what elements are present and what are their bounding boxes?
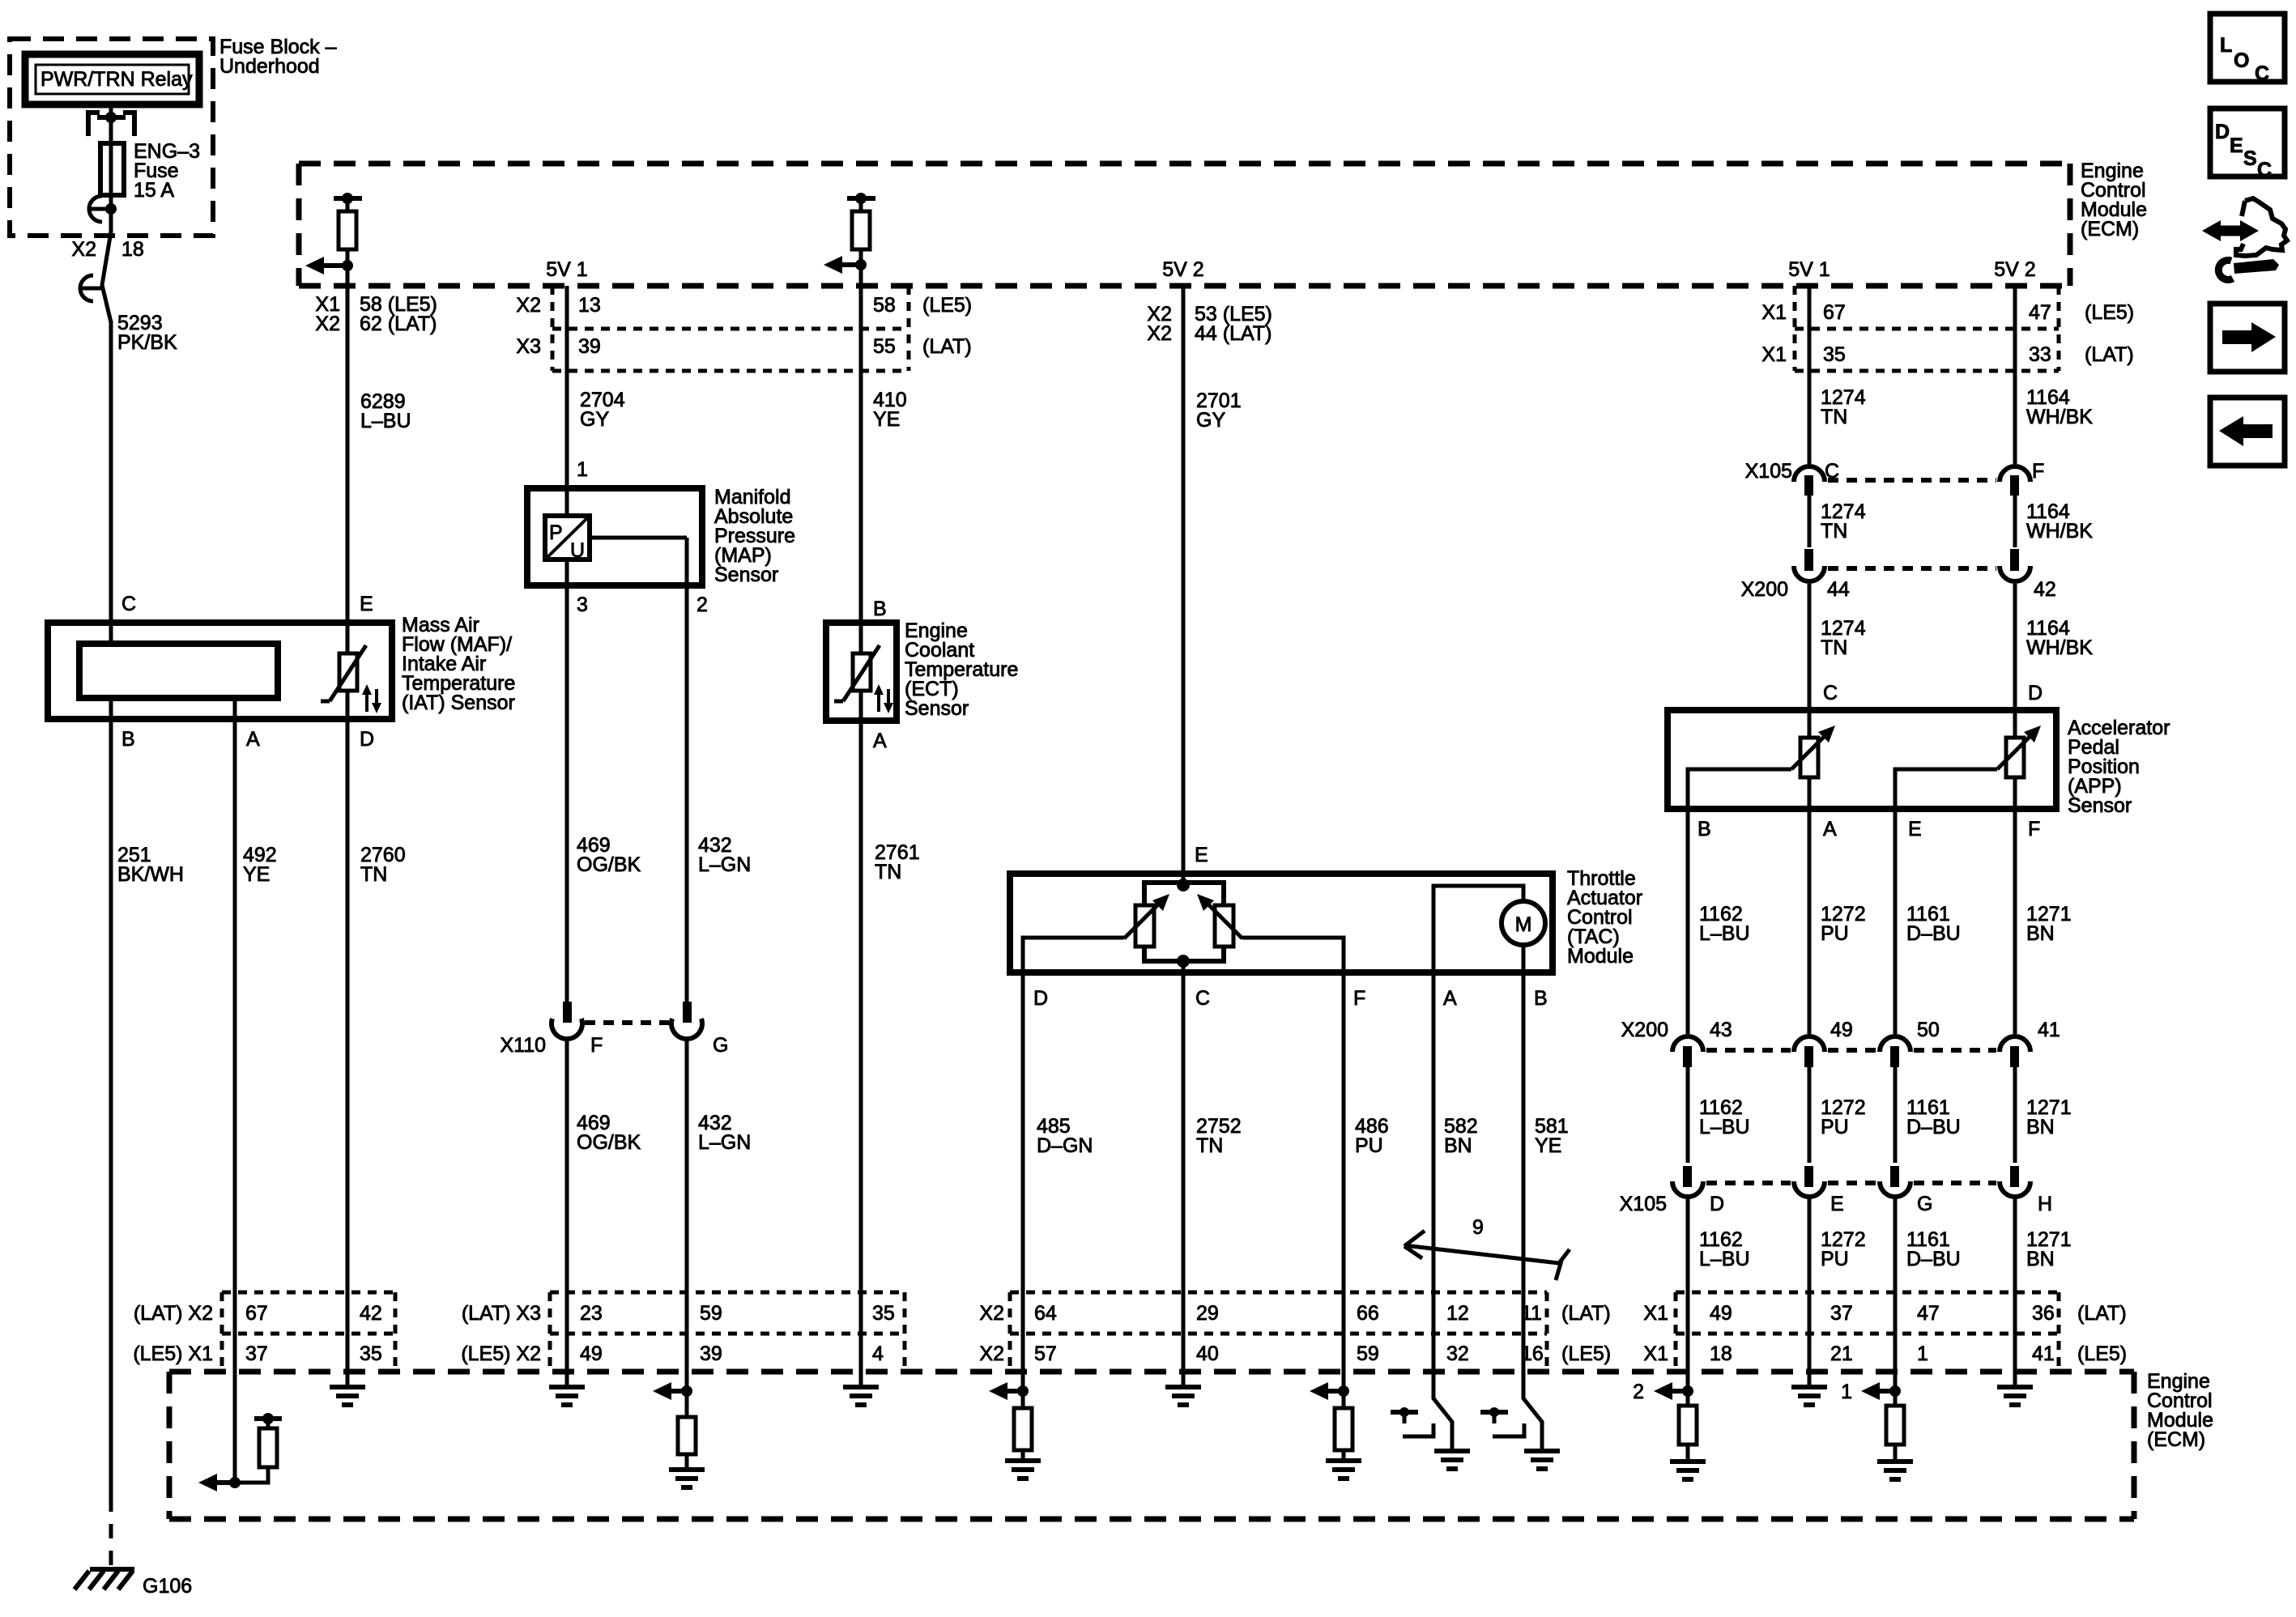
- dashed link X105 upper: [1828, 478, 1996, 483]
- svg-text:58: 58: [873, 294, 896, 317]
- svg-text:18: 18: [1710, 1343, 1732, 1365]
- pin labels (LAT) X3 23 59 35: [462, 1302, 895, 1325]
- wire 1274 TN segment 1: [1808, 286, 1812, 464]
- pin labels X1 67 47 (LE5) row: [1761, 301, 2134, 324]
- svg-text:F: F: [2032, 460, 2044, 483]
- wire 410 YE: [859, 286, 863, 623]
- label 1161 D-BU seg3: [1906, 1228, 1961, 1270]
- pin labels (LE5) X1 37 35: [133, 1343, 381, 1365]
- wire APP E internal: [1895, 769, 1997, 809]
- pin labels X1 49 37 47 36 (LAT): [1643, 1302, 2126, 1325]
- junction dot E TAC: [1177, 879, 1190, 891]
- label Engine Control Module (ECM) top: [2081, 160, 2147, 240]
- wire 1162 L-BU segment 3: [1686, 1198, 1690, 1292]
- label 1271 BN seg2: [2026, 1096, 2072, 1138]
- thermistor ECT symbol: [834, 623, 880, 721]
- svg-text:49: 49: [580, 1343, 603, 1365]
- svg-text:X1: X1: [1761, 301, 1787, 324]
- ground ECM internal APP A: [1791, 1387, 1827, 1405]
- MAF element inner box: [79, 644, 278, 698]
- svg-text:44 (LAT): 44 (LAT): [1195, 322, 1272, 345]
- label 2704 GY: [580, 389, 625, 431]
- label X110 F G: [500, 1034, 728, 1057]
- MAF/IAT sensor box: [48, 623, 392, 719]
- label 432 L-GN lower: [698, 1112, 751, 1154]
- APP sensor box: [1668, 710, 2056, 809]
- svg-text:X110: X110: [500, 1034, 546, 1057]
- motor M TAC: [1502, 901, 1545, 945]
- svg-text:1: 1: [577, 458, 588, 481]
- svg-text:BN: BN: [2026, 1248, 2055, 1270]
- wire 492 YE MAF A: [233, 698, 237, 1292]
- connector dashed box MAP-ECT pins: [552, 286, 909, 371]
- svg-text:TN: TN: [360, 863, 387, 886]
- label 1274 TN seg2: [1821, 500, 1866, 543]
- callout arrow 9: [1404, 1216, 1570, 1280]
- label 1162 L-BU seg2: [1699, 1096, 1750, 1138]
- wire 1271 BN segment 2: [2013, 1067, 2017, 1163]
- connector X200 pin 43: [1672, 1036, 1703, 1067]
- ground ECM internal APP E: [1877, 1462, 1913, 1479]
- wire TAC D into ECM: [1021, 1292, 1025, 1408]
- pin label A APP: [1823, 818, 1837, 840]
- wire TAC B jog to ground: [1523, 1372, 1542, 1451]
- label Accelerator Pedal Position (APP) Sensor: [2068, 717, 2170, 817]
- pin labels X1 18 21 1 41 (LE5): [1643, 1343, 2127, 1365]
- svg-text:(LAT) X2: (LAT) X2: [134, 1302, 213, 1325]
- wire 2752 TN: [1182, 961, 1186, 1292]
- connector dashed box MAF bottom pins: [222, 1292, 395, 1372]
- svg-text:BN: BN: [2026, 1116, 2055, 1138]
- junction dot MAP 2 internal: [681, 1385, 692, 1397]
- junction dot TAC F internal: [1338, 1385, 1349, 1397]
- arrows up-down IAT: [362, 684, 381, 713]
- resistor ECM internal pull-down TAC F: [1335, 1408, 1352, 1461]
- connector X105 pin C: [1794, 466, 1825, 496]
- svg-text:YE: YE: [243, 863, 270, 886]
- pin label B ECT: [873, 598, 887, 620]
- svg-text:35: 35: [360, 1343, 382, 1365]
- svg-text:D: D: [1033, 987, 1048, 1010]
- svg-text:L–GN: L–GN: [698, 1131, 751, 1154]
- svg-text:F: F: [2028, 818, 2040, 840]
- svg-text:X2: X2: [1147, 322, 1172, 345]
- svg-text:X2: X2: [71, 238, 96, 261]
- svg-text:(LE5): (LE5): [2077, 1343, 2127, 1365]
- wire 1164 WH/BK segment 2: [2013, 496, 2017, 547]
- svg-text:C: C: [1195, 987, 1210, 1010]
- wire 2701 GY 5V2: [1182, 286, 1186, 885]
- wire APP E into ECM: [1893, 1292, 1898, 1406]
- svg-text:(ECM): (ECM): [2147, 1428, 2205, 1451]
- svg-text:D–BU: D–BU: [1906, 922, 1961, 945]
- ECM bottom dashed box: [169, 1372, 2134, 1519]
- svg-text:E: E: [1908, 818, 1922, 840]
- svg-text:PU: PU: [1821, 1248, 1849, 1270]
- pin label D MAF: [360, 728, 374, 751]
- svg-text:X3: X3: [516, 335, 541, 358]
- svg-text:L–BU: L–BU: [360, 410, 411, 432]
- label 492 YE: [243, 844, 277, 886]
- wire 485 D-GN: [1021, 972, 1025, 1292]
- junction dot ECT branch: [855, 259, 867, 270]
- svg-text:WH/BK: WH/BK: [2026, 636, 2093, 659]
- ground ECM internal TAC D: [1005, 1461, 1041, 1479]
- pin label A MAF: [246, 728, 260, 751]
- svg-text:L–BU: L–BU: [1699, 922, 1750, 945]
- svg-text:H: H: [2038, 1193, 2052, 1215]
- svg-text:5V 2: 5V 2: [1162, 258, 1203, 281]
- label 485 D-GN: [1037, 1115, 1093, 1157]
- icon arrow left box: [2210, 398, 2285, 466]
- ground ECM internal APP B: [1670, 1462, 1706, 1479]
- label 1161 D-BU seg1: [1906, 903, 1961, 945]
- svg-text:Sensor: Sensor: [905, 697, 969, 720]
- label 1161 D-BU seg2: [1906, 1096, 1961, 1138]
- svg-text:18: 18: [121, 238, 144, 261]
- svg-text:X2: X2: [979, 1302, 1004, 1325]
- connector X200 pin 49: [1794, 1036, 1825, 1067]
- pin label F APP: [2028, 818, 2040, 840]
- svg-text:(LE5) X1: (LE5) X1: [133, 1343, 213, 1365]
- node 5V 2 label right: [1994, 258, 2035, 281]
- label 251 BK/WH: [117, 844, 184, 886]
- ground ECM internal APP F: [1997, 1387, 2033, 1405]
- label 1271 BN seg1: [2026, 903, 2072, 945]
- arrow signal out left MAF branch: [305, 257, 347, 274]
- label 2752 TN: [1196, 1115, 1242, 1157]
- svg-text:29: 29: [1196, 1302, 1219, 1325]
- pin label F TAC: [1353, 987, 1365, 1010]
- svg-text:E: E: [1830, 1193, 1844, 1215]
- svg-text:X1: X1: [1643, 1343, 1668, 1365]
- svg-text:16: 16: [1521, 1343, 1544, 1365]
- svg-text:F: F: [1353, 987, 1365, 1010]
- svg-text:WH/BK: WH/BK: [2026, 406, 2093, 428]
- ground ECM internal TAC F: [1326, 1461, 1361, 1479]
- label 469 OG/BK lower: [577, 1112, 641, 1154]
- terminal T-hook TAC A: [1391, 1407, 1433, 1436]
- svg-text:5V 1: 5V 1: [546, 258, 587, 281]
- wire TAC A jog to ground: [1433, 1372, 1452, 1451]
- svg-text:BN: BN: [2026, 922, 2055, 945]
- wiper arrow TAC right: [1197, 894, 1242, 938]
- pin label A ECT: [873, 730, 887, 752]
- resistor TAC pot right: [1215, 905, 1233, 947]
- svg-text:23: 23: [580, 1302, 603, 1325]
- wire APP B into ECM: [1686, 1292, 1690, 1406]
- pin labels X2 13 X3 39 MAP column: [516, 294, 600, 358]
- label 581 YE: [1535, 1115, 1569, 1157]
- wire APP F into ECM: [2013, 1292, 2017, 1387]
- svg-text:41: 41: [2032, 1343, 2055, 1365]
- svg-text:47: 47: [2029, 301, 2051, 324]
- label Engine Coolant Temperature (ECT) Sensor: [905, 619, 1018, 720]
- wire 1271 BN segment 1: [2013, 809, 2017, 1034]
- connector terminal curl below fuse: [89, 196, 111, 222]
- node 5V 1 label left: [546, 258, 587, 281]
- junction dot APP B internal: [1682, 1385, 1693, 1397]
- ground ECM internal TAC C: [1165, 1387, 1201, 1405]
- svg-text:X2: X2: [979, 1343, 1004, 1365]
- connector X105 pin G: [1880, 1166, 1910, 1197]
- svg-text:A: A: [246, 728, 260, 751]
- svg-text:D: D: [2215, 121, 2230, 143]
- MAP P/U transducer symbol: [545, 488, 590, 562]
- connector dashed box APP 5V pins: [1795, 286, 2059, 371]
- wire 1161 D-BU segment 2: [1893, 1067, 1898, 1163]
- label 1162 L-BU seg1: [1699, 903, 1750, 945]
- label Manifold Absolute Pressure (MAP) Sensor: [714, 486, 795, 586]
- wire 2761 TN: [859, 721, 863, 1292]
- svg-text:TN: TN: [1821, 520, 1847, 543]
- wire 469 OG/BK lower: [565, 1040, 569, 1292]
- svg-text:(LE5): (LE5): [2085, 301, 2134, 324]
- wire MAF D into ECM: [346, 1292, 350, 1387]
- label 1272 PU seg2: [1821, 1096, 1866, 1138]
- svg-text:2: 2: [696, 594, 708, 616]
- junction dot at fuse top: [105, 112, 117, 123]
- svg-text:42: 42: [360, 1302, 382, 1325]
- wire 1272 PU segment 1: [1808, 809, 1812, 1034]
- icon LOC box: [2210, 14, 2285, 85]
- svg-text:49: 49: [1710, 1302, 1732, 1325]
- wire TAC D internal: [1023, 938, 1124, 972]
- label Engine Control Module (ECM) bottom: [2147, 1370, 2213, 1451]
- resistor ECM internal pull-down MAP 2: [678, 1391, 696, 1470]
- pin label A TAC: [1443, 987, 1457, 1010]
- ground ECM internal MAP 2: [669, 1470, 705, 1487]
- svg-text:PU: PU: [1355, 1134, 1383, 1157]
- wire 582 BN: [1432, 972, 1436, 1372]
- pin label B TAC: [1534, 987, 1548, 1010]
- resistor ECM internal pull-up MAF: [339, 198, 356, 286]
- svg-text:X1: X1: [1761, 343, 1787, 366]
- resistor ECM internal pull-up ECT: [852, 198, 870, 286]
- label 1271 BN seg3: [2026, 1228, 2072, 1270]
- resistor APP pot 1: [1800, 710, 1818, 777]
- pin labels X1 58 (LE5) X2 62 (LAT) MAF column: [315, 293, 437, 335]
- wire MAP pin 2 internal: [590, 538, 687, 585]
- node 5V 2 label left: [1162, 258, 1203, 281]
- label Fuse Block - Underhood: [219, 36, 337, 78]
- pin label C APP: [1823, 682, 1838, 704]
- svg-text:50: 50: [1917, 1019, 1940, 1041]
- TAC potentiometer bridge frame: [1144, 883, 1224, 961]
- label X105 C F: [1745, 460, 2045, 483]
- svg-text:1: 1: [1917, 1343, 1928, 1365]
- wire TAC C into ECM: [1182, 1292, 1186, 1387]
- pin label C TAC: [1195, 987, 1210, 1010]
- svg-text:G: G: [1917, 1193, 1932, 1215]
- pin label B MAF: [121, 728, 135, 751]
- svg-text:GY: GY: [580, 408, 609, 431]
- connector X200 pin 44: [1794, 549, 1825, 581]
- wire 1162 L-BU segment 2: [1686, 1067, 1690, 1163]
- connector dashed box TAC bottom pins: [1010, 1292, 1547, 1372]
- wire APP B internal: [1688, 769, 1791, 809]
- svg-text:(IAT) Sensor: (IAT) Sensor: [402, 691, 515, 714]
- label 410 YE: [873, 389, 907, 431]
- wire 1161 D-BU segment 3: [1893, 1198, 1898, 1292]
- wire 1274 TN segment 3: [1808, 584, 1812, 710]
- dashed link X110: [585, 1020, 669, 1025]
- svg-text:33: 33: [2029, 343, 2051, 366]
- label 582 BN: [1444, 1115, 1478, 1157]
- label 1164 WH/BK seg1: [2026, 386, 2093, 428]
- wire 432 L-GN MAP 2 upper: [685, 585, 689, 1002]
- svg-text:X2: X2: [315, 313, 340, 335]
- connector X2 pin 18 pass-through labels: [71, 238, 143, 261]
- junction dot TAC D internal: [1017, 1385, 1029, 1397]
- svg-text:A: A: [873, 730, 887, 752]
- svg-text:40: 40: [1196, 1343, 1219, 1365]
- pin labels (LE5) X2 49 39 4: [461, 1343, 884, 1365]
- svg-text:C: C: [121, 593, 136, 615]
- wire jog through fuse block connector: [102, 209, 111, 322]
- label 2760 TN: [360, 844, 406, 886]
- resistor ECM internal pull-up MAF A: [235, 1419, 277, 1483]
- connector X200 pin 42: [2000, 549, 2030, 581]
- svg-text:TN: TN: [875, 861, 901, 883]
- svg-text:43: 43: [1710, 1019, 1732, 1041]
- svg-text:D: D: [360, 728, 374, 751]
- wire relay to fuse holder: [109, 104, 113, 143]
- icon adjust hand outline: [2236, 198, 2287, 256]
- svg-text:(LAT): (LAT): [922, 335, 972, 358]
- svg-text:D–BU: D–BU: [1906, 1116, 1961, 1138]
- svg-text:B: B: [1534, 987, 1548, 1010]
- wire 5293 PK/BK: [109, 321, 113, 644]
- pin label 3 MAP: [577, 594, 588, 616]
- svg-text:X105: X105: [1745, 460, 1792, 483]
- connector X200 pin 41: [2000, 1036, 2030, 1067]
- junction dot below fuse: [105, 203, 117, 215]
- wire TAC F into ECM: [1342, 1292, 1346, 1408]
- svg-text:(LE5) X2: (LE5) X2: [461, 1343, 541, 1365]
- svg-text:3: 3: [577, 594, 588, 616]
- connector X200 pin 50: [1880, 1036, 1910, 1067]
- label 1272 PU seg3: [1821, 1228, 1866, 1270]
- wire 1272 PU segment 3: [1808, 1198, 1812, 1292]
- TAC module box: [1010, 874, 1553, 972]
- svg-text:B: B: [1698, 818, 1711, 840]
- connector terminal curl X2-18: [80, 275, 102, 301]
- arrow internal left APP E with label 1: [1841, 1381, 1895, 1403]
- svg-text:2: 2: [1633, 1381, 1644, 1403]
- svg-text:L: L: [2220, 34, 2232, 57]
- wire 1162 L-BU segment 1: [1686, 809, 1690, 1034]
- connector dashed box APP bottom pins: [1676, 1292, 2059, 1372]
- connector dashed box MAP-ECT bottom pins: [550, 1292, 905, 1372]
- svg-text:BN: BN: [1444, 1134, 1472, 1157]
- wire 6289 L-BU: [346, 286, 350, 623]
- svg-text:37: 37: [245, 1343, 268, 1365]
- svg-text:39: 39: [700, 1343, 722, 1365]
- svg-text:11: 11: [1521, 1302, 1542, 1325]
- svg-text:L–GN: L–GN: [698, 853, 751, 876]
- svg-text:(LE5): (LE5): [1561, 1343, 1611, 1365]
- svg-text:D: D: [2028, 682, 2043, 704]
- pin labels X1 35 33 (LAT) row: [1761, 343, 2133, 366]
- resistor TAC pot left: [1135, 905, 1154, 947]
- svg-text:1: 1: [1841, 1381, 1852, 1403]
- label Throttle Actuator Control (TAC) Module: [1567, 867, 1642, 968]
- label X200 44 42: [1741, 578, 2056, 601]
- svg-text:55: 55: [873, 335, 896, 358]
- label 1274 TN seg3: [1821, 617, 1866, 659]
- wiper arrow TAC left: [1124, 894, 1169, 938]
- ground ECM internal TAC A: [1434, 1451, 1470, 1469]
- svg-text:Module: Module: [1567, 945, 1634, 968]
- wiper arrow APP pot 1: [1791, 726, 1835, 769]
- svg-text:15 A: 15 A: [134, 179, 174, 202]
- wire TAC F internal: [1242, 938, 1344, 972]
- label Mass Air Flow (MAF)/ Intake Air Temperature (IAT) Sensor: [402, 614, 515, 714]
- wire 1271 BN segment 3: [2013, 1198, 2017, 1292]
- arrows up-down ECT: [874, 684, 893, 713]
- wire APP A into ECM: [1808, 1292, 1812, 1387]
- arrow internal left TAC F: [1310, 1382, 1344, 1400]
- ground ECM internal TAC B: [1524, 1451, 1560, 1469]
- arrow internal left MAF A: [198, 1474, 235, 1491]
- svg-text:49: 49: [1830, 1019, 1853, 1041]
- pin label D TAC: [1033, 987, 1048, 1010]
- svg-text:39: 39: [578, 335, 601, 358]
- junction dot MAF branch: [342, 260, 353, 271]
- label 432 L-GN upper: [698, 834, 751, 876]
- svg-text:D: D: [1710, 1193, 1724, 1215]
- svg-text:F: F: [590, 1034, 603, 1057]
- svg-text:PU: PU: [1821, 922, 1849, 945]
- ECM internal supply T-bar for ECT branch: [847, 193, 875, 204]
- svg-text:D–GN: D–GN: [1037, 1134, 1093, 1157]
- label 5293 PK/BK: [117, 312, 177, 354]
- ground G106 chassis: [75, 1569, 134, 1589]
- resistor APP pot 2: [2006, 710, 2024, 777]
- wire 432 L-GN lower: [685, 1040, 689, 1292]
- svg-text:C: C: [2257, 159, 2272, 181]
- pin label B APP: [1698, 818, 1711, 840]
- ground ECM internal MAP 3: [549, 1387, 585, 1405]
- svg-text:WH/BK: WH/BK: [2026, 520, 2093, 543]
- svg-text:X200: X200: [1621, 1019, 1668, 1041]
- svg-text:4: 4: [872, 1343, 884, 1365]
- svg-text:D–BU: D–BU: [1906, 1248, 1961, 1270]
- svg-text:Sensor: Sensor: [2068, 794, 2132, 817]
- svg-text:Sensor: Sensor: [714, 564, 778, 586]
- connector X105 pin F: [2000, 466, 2030, 496]
- svg-text:B: B: [121, 728, 135, 751]
- wire 1161 D-BU segment 1: [1893, 809, 1898, 1034]
- svg-text:57: 57: [1034, 1343, 1057, 1365]
- icon double arrow: [2202, 220, 2259, 241]
- svg-text:(LAT) X3: (LAT) X3: [462, 1302, 541, 1325]
- ECM internal supply T-bar for MAF branch: [334, 193, 362, 204]
- svg-text:(LAT): (LAT): [1561, 1302, 1611, 1325]
- wire MAP pin 3 internal: [565, 560, 569, 585]
- wire 1164 WH/BK segment 1: [2013, 286, 2017, 464]
- terminal T-hook TAC B: [1480, 1407, 1524, 1436]
- svg-text:G106: G106: [143, 1575, 192, 1598]
- pin labels X2 53 (LE5) X2 44 (LAT) TAC column: [1147, 303, 1272, 345]
- connector X105 pin D: [1672, 1166, 1703, 1197]
- svg-text:X1: X1: [1643, 1302, 1668, 1325]
- icon wrench: [2218, 259, 2279, 279]
- pin labels (LAT) X2 67 42: [134, 1302, 382, 1325]
- wire MAF A into ECM: [233, 1292, 237, 1483]
- svg-text:35: 35: [872, 1302, 895, 1325]
